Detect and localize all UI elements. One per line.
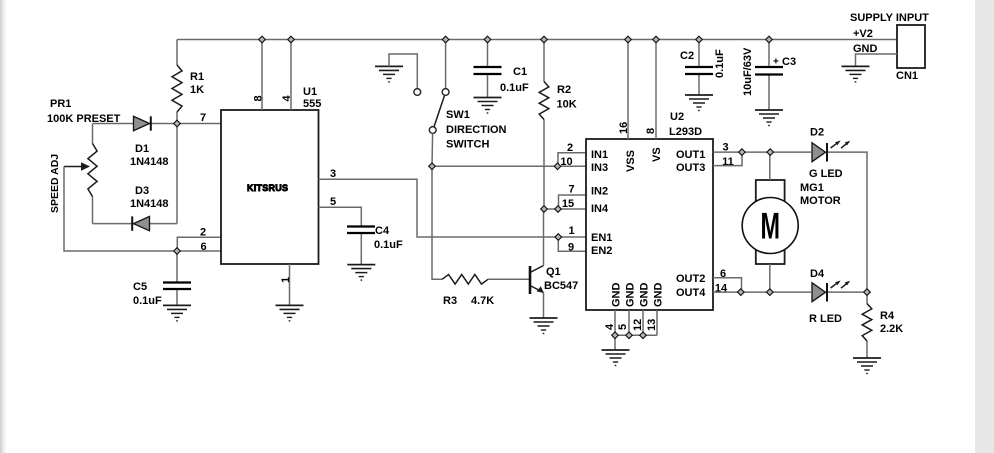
resistor R3 (442, 275, 488, 285)
capacitor C1 (487, 40, 489, 98)
svg-text:KITSRUS: KITSRUS (247, 183, 288, 193)
resistor R1 (172, 65, 182, 112)
wire: SW1 to rail (445, 40, 447, 89)
svg-text:DIRECTION: DIRECTION (446, 124, 507, 136)
ground (C4) (347, 265, 375, 281)
ground (C3) (755, 110, 783, 126)
node junction (174, 120, 181, 127)
ground (C1) (474, 98, 502, 114)
svg-text:R1: R1 (190, 71, 204, 83)
svg-text:L293D: L293D (669, 126, 702, 138)
svg-text:10: 10 (560, 156, 572, 168)
svg-text:0.1uF: 0.1uF (500, 82, 529, 94)
node junction (554, 163, 561, 170)
node junction (625, 36, 632, 43)
svg-text:VS: VS (651, 147, 663, 162)
wire: U1 pin 5 to C4 (319, 207, 362, 225)
svg-text:16: 16 (618, 122, 630, 134)
ground (CN1) (842, 66, 870, 82)
svg-text:SPEED ADJ: SPEED ADJ (49, 154, 61, 213)
svg-text:1: 1 (280, 277, 292, 283)
wire: U2 pin 8 (655, 40, 657, 140)
svg-text:9: 9 (568, 242, 574, 254)
wire: U1 pin2 bracket + pin6 (177, 237, 221, 251)
ground (C2) (685, 95, 713, 111)
svg-text:15: 15 (562, 198, 574, 210)
diode D1 1N4148 (134, 116, 151, 130)
svg-text:4: 4 (604, 323, 616, 330)
svg-text:GND: GND (653, 283, 665, 308)
node junction (541, 36, 548, 43)
ground (Q1 emitter) (530, 318, 558, 334)
wire: U1 pin 8 (261, 40, 263, 111)
node junction (541, 206, 548, 213)
svg-text:R3: R3 (443, 295, 457, 307)
svg-text:5: 5 (330, 196, 336, 208)
wire: IN1 bracket (558, 153, 586, 167)
wire: direction row to IN1/IN3 (432, 165, 586, 167)
wire: SW1 ground arm (389, 54, 417, 88)
svg-text:4.7K: 4.7K (471, 295, 494, 307)
svg-text:PR1: PR1 (50, 98, 71, 110)
svg-text:R LED: R LED (809, 313, 842, 325)
wire: SW1 pole down (431, 133, 434, 166)
node junction (555, 206, 562, 213)
svg-text:OUT3: OUT3 (676, 162, 705, 174)
wire: motor bottom (769, 264, 771, 292)
svg-text:OUT1: OUT1 (676, 149, 705, 161)
node junction (555, 234, 562, 241)
ground (SW1 NC throw) (375, 66, 403, 82)
svg-text:2: 2 (567, 142, 573, 154)
svg-text:U1: U1 (303, 86, 317, 98)
svg-text:SW1: SW1 (446, 109, 470, 121)
svg-text:CN1: CN1 (896, 70, 918, 82)
svg-text:GND: GND (853, 43, 878, 55)
svg-text:6: 6 (200, 241, 206, 253)
svg-text:8: 8 (253, 95, 265, 101)
svg-text:1K: 1K (190, 84, 204, 96)
diode D3 1N4148 (132, 216, 149, 230)
svg-text:3: 3 (330, 168, 336, 180)
right page edge shading (975, 0, 994, 453)
wire: motor top (769, 152, 771, 180)
svg-text:IN3: IN3 (591, 162, 608, 174)
svg-text:1N4148: 1N4148 (130, 198, 169, 210)
svg-text:D3: D3 (135, 185, 149, 197)
wire: EN2 bracket (558, 237, 586, 251)
left page edge shading (0, 0, 2, 453)
svg-text:OUT4: OUT4 (676, 287, 706, 299)
motor MG1 (742, 180, 798, 264)
wire: IN2 bracket (559, 195, 587, 209)
wire: D3 row (93, 223, 178, 225)
capacitor C4 (347, 225, 375, 227)
wire: U2 pin 16 (627, 40, 629, 140)
svg-text:IN1: IN1 (591, 149, 608, 161)
ground (U1 pin1) (276, 305, 304, 321)
node junction (739, 149, 746, 156)
svg-text:C4: C4 (375, 225, 390, 237)
svg-text:C5: C5 (133, 281, 147, 293)
svg-text:D1: D1 (135, 143, 149, 155)
node junction (612, 332, 619, 339)
svg-text:EN1: EN1 (591, 232, 612, 244)
wire: node7 row (pot top through D1 to U1 pin 7) (93, 123, 222, 125)
svg-text:IN2: IN2 (591, 186, 608, 198)
node junction (766, 36, 773, 43)
svg-text:10K: 10K (557, 99, 577, 111)
wire: Q1 collector up to IN2/IN4 node (543, 209, 545, 266)
node junction (767, 149, 774, 156)
svg-text:G LED: G LED (809, 168, 843, 180)
node junction (653, 36, 660, 43)
capacitor C2 (698, 40, 700, 96)
PR1 wiper arrow (64, 166, 83, 168)
svg-text:SUPPLY INPUT: SUPPLY INPUT (850, 12, 929, 24)
wire: Q1 emitter to ground (543, 293, 545, 319)
svg-text:0.1uF: 0.1uF (714, 49, 726, 78)
wire: OUT2 bracket (713, 278, 742, 292)
svg-text:BC547: BC547 (544, 280, 578, 292)
wire: R1 leads (176, 40, 178, 124)
wire: OUT4 row (713, 291, 811, 293)
svg-text:C3: C3 (782, 56, 796, 68)
svg-text:+: + (773, 57, 779, 68)
node junction (259, 36, 266, 43)
node junction (442, 36, 449, 43)
svg-text:12: 12 (632, 319, 644, 331)
wire: U1 pin 4 (290, 40, 292, 111)
node junction (429, 163, 436, 170)
ground (C5) (163, 305, 191, 321)
svg-text:VSS: VSS (625, 150, 637, 172)
wire: U1 pin 1 (289, 264, 291, 305)
wire: U2 gnd stems and bus (615, 310, 657, 350)
node junction (737, 289, 744, 296)
potentiometer PR1 (92, 124, 94, 224)
svg-text:R2: R2 (557, 84, 571, 96)
svg-text:100K PRESET: 100K PRESET (47, 113, 121, 125)
LED D4 (812, 279, 851, 302)
svg-text:1N4148: 1N4148 (130, 156, 169, 168)
LED D2 (812, 139, 851, 162)
resistor R4 (866, 292, 868, 358)
wire: OUT1 row (713, 151, 811, 153)
node junction (174, 248, 181, 255)
resistor R2 (543, 40, 545, 210)
svg-text:2.2K: 2.2K (880, 323, 903, 335)
svg-text:8: 8 (645, 128, 657, 134)
svg-text:7: 7 (568, 184, 574, 196)
svg-text:7: 7 (200, 112, 206, 124)
svg-text:GND: GND (625, 283, 637, 308)
switch SW1 terminal left (414, 89, 421, 96)
node junction (696, 36, 703, 43)
svg-text:13: 13 (646, 319, 658, 331)
node junction (864, 289, 871, 296)
node junction (766, 289, 773, 296)
node junction (626, 332, 633, 339)
svg-text:10uF/63V: 10uF/63V (742, 47, 754, 96)
capacitor C5 (176, 251, 178, 305)
wire: CN1 GND (856, 54, 898, 66)
ground (R4) (853, 358, 881, 374)
switch SW1 pole terminal (429, 127, 436, 134)
wire: R3 branch from direction node (432, 166, 529, 279)
svg-text:C2: C2 (680, 50, 694, 62)
node junction (484, 36, 491, 43)
svg-text:0.1uF: 0.1uF (133, 295, 162, 307)
connector CN1 (897, 25, 925, 68)
wire: OUT3 bracket (713, 152, 742, 166)
wire: wiper drop to pin 2/6 node (64, 167, 177, 252)
svg-text:M: M (760, 205, 779, 247)
svg-text:2: 2 (200, 227, 206, 239)
wire: node7 to D3 row vertical (176, 124, 178, 224)
transistor Q1 BC547 (530, 266, 544, 295)
driver IC U2 L293D (586, 139, 713, 310)
switch SW1 lever (434, 96, 445, 127)
svg-text:IN4: IN4 (591, 203, 609, 215)
svg-text:0.1uF: 0.1uF (374, 239, 403, 251)
wire: D2 to right bus (828, 152, 867, 292)
capacitor C3 (768, 40, 770, 111)
svg-text:555: 555 (303, 98, 321, 110)
wire: D4 to right bus (828, 291, 867, 293)
wire: U1 pin 3 to EN1/EN2 (319, 179, 587, 237)
svg-text:D2: D2 (810, 127, 824, 139)
svg-text:1: 1 (568, 225, 574, 237)
ground (U2) (602, 350, 630, 366)
node junction (640, 332, 647, 339)
switch SW1 terminal right (442, 89, 449, 96)
svg-text:SWITCH: SWITCH (446, 139, 489, 151)
svg-text:+V2: +V2 (853, 28, 873, 40)
svg-text:MOTOR: MOTOR (800, 195, 841, 207)
svg-text:OUT2: OUT2 (676, 273, 705, 285)
svg-text:Q1: Q1 (546, 266, 561, 278)
svg-text:MG1: MG1 (800, 182, 824, 194)
svg-text:4: 4 (281, 95, 293, 102)
svg-text:C1: C1 (513, 66, 527, 78)
wire: IN2/IN4 row (544, 208, 586, 210)
op IC U1 555 (221, 110, 319, 264)
svg-text:R4: R4 (880, 310, 895, 322)
svg-text:5: 5 (617, 324, 629, 330)
svg-text:D4: D4 (810, 268, 825, 280)
svg-text:GND: GND (639, 283, 651, 308)
wire: +V supply rail (177, 39, 897, 41)
svg-text:U2: U2 (670, 111, 684, 123)
svg-text:GND: GND (611, 283, 623, 308)
node junction (288, 36, 295, 43)
svg-text:EN2: EN2 (591, 245, 612, 257)
